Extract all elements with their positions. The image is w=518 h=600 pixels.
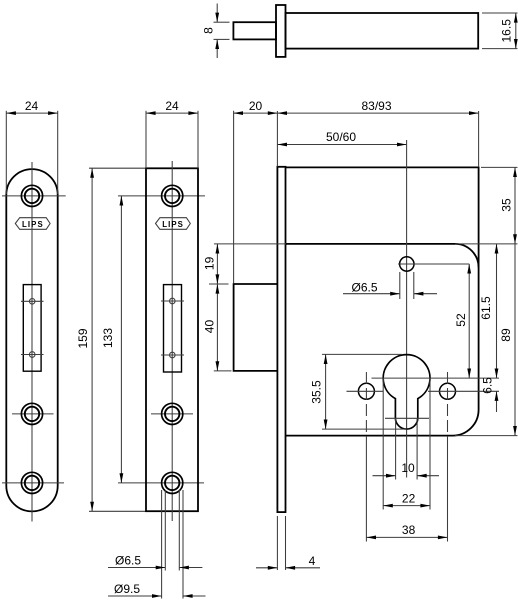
svg-text:35.5: 35.5 — [310, 380, 324, 404]
svg-text:52: 52 — [454, 313, 468, 327]
dim 20 — [233, 99, 277, 283]
top screw hole — [162, 185, 183, 206]
dim 38 — [366, 523, 447, 539]
dim 83/93 — [277, 99, 478, 167]
dim Ø6.5 (plate holes) — [108, 554, 202, 570]
top screw hole — [2, 185, 66, 206]
dim 8 — [202, 4, 230, 59]
euro cylinder profile — [383, 355, 430, 429]
svg-text:20: 20 — [249, 99, 263, 113]
dim 24 left plate — [6, 99, 57, 194]
case outline — [286, 167, 479, 435]
cylinder centerline — [406, 140, 408, 478]
svg-text:LIPS: LIPS — [22, 220, 44, 229]
bolt flange (faceplate edge-on) — [276, 5, 286, 57]
svg-text:89: 89 — [499, 328, 513, 342]
centerline — [171, 161, 173, 521]
svg-text:35: 35 — [500, 198, 514, 212]
dim 24 middle plate — [146, 99, 198, 168]
faceplate — [277, 167, 285, 512]
slot inner line — [385, 417, 429, 419]
dim 16.5 — [482, 13, 518, 49]
svg-text:Ø6.5: Ø6.5 — [115, 554, 141, 568]
svg-text:8: 8 — [202, 27, 216, 34]
svg-text:38: 38 — [402, 523, 416, 537]
dim 133 (hole spacing) — [101, 196, 205, 483]
svg-text:Ø6.5: Ø6.5 — [351, 281, 377, 295]
bolt body cylinder — [286, 13, 479, 49]
bottom screw hole — [162, 472, 183, 493]
square faceplate outline — [146, 168, 198, 511]
svg-text:40: 40 — [203, 320, 217, 334]
LIPS badge — [15, 218, 50, 230]
bolt protruding — [234, 284, 278, 371]
extension lines below case — [366, 378, 447, 541]
right fixing hole — [428, 372, 499, 437]
svg-text:61.5: 61.5 — [479, 296, 493, 320]
svg-text:Ø9.5: Ø9.5 — [114, 582, 140, 596]
dim 40 — [203, 284, 232, 371]
dim 6.5 (hole offset) — [480, 377, 498, 412]
bolt slot — [161, 285, 184, 372]
middle screw hole — [12, 403, 54, 424]
right side extension lines — [455, 167, 518, 435]
dim 61.5 — [479, 244, 498, 378]
rounded faceplate outline — [6, 169, 57, 511]
svg-text:22: 22 — [402, 492, 416, 506]
svg-text:24: 24 — [25, 99, 39, 113]
dim 50/60 — [277, 130, 406, 146]
svg-text:6.5: 6.5 — [480, 377, 494, 394]
svg-text:4: 4 — [309, 554, 316, 568]
dim 10 — [373, 461, 440, 478]
left fixing hole — [347, 372, 384, 437]
LIPS badge — [156, 218, 191, 230]
svg-text:24: 24 — [165, 99, 179, 113]
cylinder horizontal centerline — [372, 377, 500, 379]
bottom screw hole — [2, 472, 64, 493]
dim 35 — [500, 167, 517, 244]
svg-text:159: 159 — [76, 328, 90, 348]
dim 52 — [454, 264, 471, 378]
svg-text:50/60: 50/60 — [326, 130, 356, 144]
dim 4 — [256, 516, 320, 570]
dim Ø9.5 (plate holes) — [108, 582, 206, 598]
case inner line — [286, 244, 479, 268]
hole diameter extension lines — [162, 490, 183, 599]
dim 89 — [499, 244, 517, 436]
dim Ø6.5 (case hole) — [343, 272, 437, 299]
dim 159 (plate length) — [76, 168, 146, 511]
middle screw hole — [151, 403, 193, 424]
svg-text:16.5: 16.5 — [500, 19, 514, 43]
svg-text:19: 19 — [203, 256, 217, 270]
dim 35.5 — [310, 354, 407, 429]
svg-text:LIPS: LIPS — [162, 220, 184, 229]
svg-text:133: 133 — [101, 328, 115, 348]
dim 22 — [383, 492, 430, 508]
centerline — [31, 162, 33, 522]
bolt stem rod — [233, 22, 276, 39]
svg-text:83/93: 83/93 — [361, 99, 391, 113]
top hole Ø6.5 in case — [398, 257, 469, 271]
bolt slot — [21, 285, 44, 372]
svg-text:10: 10 — [401, 461, 415, 475]
dim 19 — [203, 244, 286, 284]
